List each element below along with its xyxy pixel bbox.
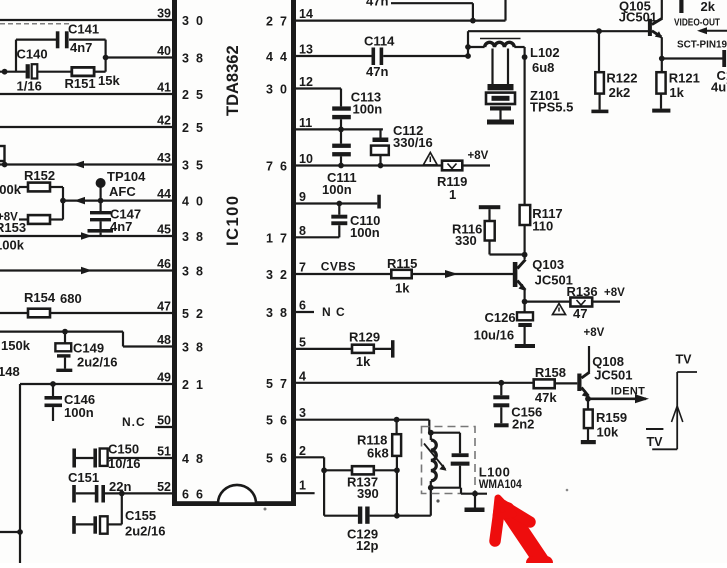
svg-text:N.C: N.C: [122, 415, 146, 429]
svg-text:48: 48: [157, 333, 171, 347]
svg-text:2: 2: [299, 444, 306, 458]
svg-text:100n: 100n: [350, 225, 380, 240]
svg-text:42: 42: [157, 114, 171, 128]
svg-text:148: 148: [0, 364, 20, 379]
svg-text:47k: 47k: [535, 390, 557, 405]
svg-text:10u/16: 10u/16: [474, 328, 514, 343]
svg-text:VIDEO-OUT: VIDEO-OUT: [674, 16, 720, 28]
svg-text:AFC: AFC: [109, 184, 136, 199]
svg-text:SCT-PIN19: SCT-PIN19: [677, 39, 727, 51]
svg-text:12: 12: [299, 75, 313, 89]
svg-text:100k: 100k: [0, 182, 22, 197]
svg-text:4n7: 4n7: [110, 219, 132, 234]
svg-text:8: 8: [299, 224, 306, 238]
svg-text:5 7: 5 7: [266, 377, 289, 391]
svg-text:6u8: 6u8: [532, 60, 554, 75]
svg-text:330: 330: [455, 233, 477, 248]
svg-text:680: 680: [60, 291, 82, 306]
svg-text:+8V: +8V: [468, 150, 489, 162]
svg-text:IDENT: IDENT: [611, 386, 646, 398]
svg-text:+8V: +8V: [584, 327, 605, 339]
svg-text:47: 47: [573, 306, 587, 321]
svg-text:Q103: Q103: [532, 257, 564, 272]
svg-text:TDA8362: TDA8362: [224, 45, 242, 116]
svg-text:N C: N C: [322, 305, 346, 319]
svg-text:100n: 100n: [353, 102, 383, 117]
svg-text:C140: C140: [17, 47, 48, 62]
svg-text:IC100: IC100: [224, 194, 242, 246]
svg-text:4n7: 4n7: [70, 40, 92, 55]
svg-text:100n: 100n: [322, 182, 352, 197]
svg-text:3 8: 3 8: [182, 52, 205, 66]
svg-text:1 7: 1 7: [266, 231, 289, 245]
svg-text:49: 49: [157, 371, 171, 385]
svg-text:1/16: 1/16: [17, 79, 42, 94]
svg-text:2 5: 2 5: [182, 88, 205, 102]
svg-text:10: 10: [299, 152, 313, 166]
svg-text:C150: C150: [108, 442, 139, 457]
svg-text:47n: 47n: [366, 64, 388, 79]
svg-text:11: 11: [299, 116, 312, 130]
svg-text:5 2: 5 2: [182, 307, 205, 321]
svg-text:3 8: 3 8: [182, 230, 205, 244]
svg-text:10k: 10k: [597, 425, 619, 440]
svg-text:12p: 12p: [356, 538, 378, 553]
svg-text:L102: L102: [530, 45, 560, 60]
svg-text:R122: R122: [606, 71, 637, 86]
svg-text:4u7: 4u7: [711, 80, 727, 95]
svg-text:3: 3: [299, 406, 306, 420]
svg-text:R154: R154: [24, 290, 56, 305]
svg-text:2u2/16: 2u2/16: [125, 524, 165, 539]
svg-text:R158: R158: [535, 365, 566, 380]
svg-text:R136: R136: [567, 284, 598, 299]
svg-text:4 4: 4 4: [266, 50, 289, 64]
svg-text:3 8: 3 8: [266, 306, 289, 320]
svg-text:15k: 15k: [98, 73, 120, 88]
svg-text:R129: R129: [349, 330, 380, 345]
svg-text:1: 1: [299, 479, 306, 493]
svg-text:CVBS: CVBS: [321, 260, 356, 274]
svg-text:41: 41: [157, 81, 171, 95]
svg-text:330/16: 330/16: [393, 135, 433, 150]
svg-text:R115: R115: [387, 256, 417, 271]
svg-text:100k: 100k: [0, 238, 25, 253]
svg-text:40: 40: [157, 44, 171, 58]
svg-text:50: 50: [157, 414, 171, 428]
svg-text:51: 51: [157, 445, 171, 459]
svg-text:4: 4: [299, 369, 306, 383]
svg-text:C149: C149: [73, 341, 104, 356]
svg-text:4 8: 4 8: [182, 452, 205, 466]
svg-text:R159: R159: [596, 410, 627, 425]
svg-text:JC501: JC501: [619, 10, 657, 25]
svg-text:+8V: +8V: [604, 287, 625, 299]
svg-text:C114: C114: [364, 34, 395, 49]
svg-text:22n: 22n: [109, 479, 131, 494]
svg-text:R121: R121: [669, 71, 700, 86]
svg-text:2 5: 2 5: [182, 121, 205, 135]
svg-text:110: 110: [532, 219, 553, 234]
svg-text:390: 390: [357, 486, 379, 501]
svg-text:JC501: JC501: [594, 368, 632, 383]
svg-text:3 2: 3 2: [266, 268, 289, 282]
svg-text:2k2: 2k2: [609, 85, 631, 100]
svg-text:6 6: 6 6: [182, 487, 205, 501]
svg-text:R151: R151: [65, 76, 96, 91]
svg-text:1k: 1k: [356, 354, 371, 369]
svg-text:4 0: 4 0: [182, 195, 205, 209]
svg-text:7: 7: [299, 261, 306, 275]
svg-text:TP104: TP104: [107, 169, 146, 184]
svg-text:47n: 47n: [366, 0, 388, 9]
svg-text:43: 43: [157, 151, 171, 165]
svg-text:150k: 150k: [1, 338, 31, 353]
svg-text:52: 52: [157, 480, 171, 494]
svg-text:1k: 1k: [669, 85, 684, 100]
svg-text:3 5: 3 5: [182, 159, 205, 173]
svg-text:2n2: 2n2: [512, 417, 534, 432]
svg-text:10/16: 10/16: [108, 456, 141, 471]
svg-text:1: 1: [449, 187, 456, 202]
svg-text:C155: C155: [125, 508, 156, 523]
svg-text:5 6: 5 6: [266, 414, 289, 428]
svg-text:WMA104: WMA104: [479, 477, 522, 491]
svg-text:2k: 2k: [701, 0, 716, 14]
svg-text:R153: R153: [0, 220, 26, 235]
svg-text:6k8: 6k8: [367, 446, 389, 461]
svg-text:2u2/16: 2u2/16: [77, 355, 117, 370]
svg-text:5: 5: [299, 335, 306, 349]
svg-text:TPS5.5: TPS5.5: [530, 100, 573, 115]
svg-text:44: 44: [157, 187, 171, 201]
svg-text:6: 6: [299, 299, 306, 313]
svg-text:C151: C151: [68, 470, 99, 485]
svg-text:TV: TV: [647, 435, 664, 449]
svg-text:13: 13: [299, 43, 313, 57]
svg-text:TV: TV: [676, 353, 693, 367]
svg-text:39: 39: [157, 7, 171, 21]
svg-text:7 6: 7 6: [266, 160, 289, 174]
svg-text:46: 46: [157, 257, 171, 271]
svg-text:3 0: 3 0: [266, 83, 289, 97]
svg-text:2 7: 2 7: [266, 15, 289, 29]
svg-text:3 8: 3 8: [182, 341, 205, 355]
svg-text:R152: R152: [24, 168, 55, 183]
svg-text:3 8: 3 8: [182, 265, 205, 279]
svg-text:3 0: 3 0: [182, 14, 205, 28]
svg-text:100n: 100n: [64, 405, 94, 420]
svg-text:45: 45: [157, 223, 171, 237]
svg-text:2 1: 2 1: [182, 378, 205, 392]
svg-text:5 6: 5 6: [266, 451, 289, 465]
svg-text:C126: C126: [485, 310, 516, 325]
svg-text:1k: 1k: [395, 281, 410, 296]
svg-text:14: 14: [299, 7, 313, 21]
svg-text:9: 9: [299, 190, 306, 204]
svg-text:47: 47: [157, 300, 171, 314]
svg-text:C141: C141: [68, 22, 99, 37]
